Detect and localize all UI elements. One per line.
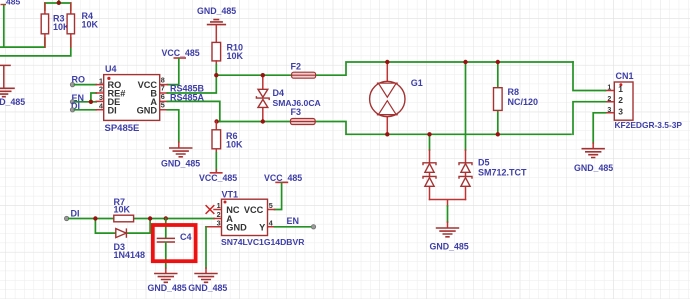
wire A line to F3 riser [216,122,571,135]
svg-text:10K: 10K [226,140,243,150]
wire VCC to U4 pin8 [167,59,178,85]
junction EN [89,100,93,104]
junction R8 top [496,60,500,64]
svg-text:DI: DI [108,105,117,115]
svg-text:EN: EN [287,216,300,226]
fuse F2 [291,62,316,79]
svg-text:1N4148: 1N4148 [114,250,146,260]
svg-text:G1: G1 [411,78,423,88]
svg-text:GND_485: GND_485 [430,241,469,251]
svg-text:VT1: VT1 [222,190,239,200]
wire DI line to VT1 pin A [69,218,214,220]
wire R6 to VCC port [215,153,217,170]
svg-text:D5: D5 [478,157,490,167]
wire R3 R4 tops [45,0,71,10]
junction B node [214,73,218,77]
ground GND_485 left edge [0,65,25,106]
junction D5 right top rail [463,60,467,64]
svg-text:5: 5 [269,201,273,210]
diode D4 SMAJ6.0CA [256,75,320,121]
wire CN1 pin1 riser [573,62,606,91]
svg-text:SM712.TCT: SM712.TCT [478,168,527,178]
net label fragment top-left [1,0,21,7]
junction D3 right [148,216,152,220]
svg-text:VCC: VCC [244,205,264,215]
svg-text:1: 1 [217,201,221,210]
svg-text:4: 4 [269,218,273,227]
wire EN to DE and RE# [75,93,97,102]
op-amp U4 SP485E [96,64,167,134]
wire DI [75,109,97,111]
wire VT1 pin3 to ground [205,227,207,268]
svg-text:2: 2 [607,96,611,103]
svg-text:5: 5 [161,101,165,110]
svg-text:GND_485: GND_485 [161,159,200,169]
junction D5 left top [427,132,431,136]
svg-text:R8: R8 [508,87,520,97]
port RO [70,75,85,87]
junction D3 left [93,216,97,220]
port EN [70,93,84,104]
svg-text:U4: U4 [105,64,117,74]
svg-text:F3: F3 [291,107,302,117]
svg-text:DI: DI [71,209,80,219]
resistor R8 [494,62,539,134]
junction A node [214,119,218,123]
svg-text:GND_485: GND_485 [197,6,236,16]
junction D4 bottom [261,119,265,123]
gas discharge tube G1 [370,62,423,134]
svg-text:C4: C4 [180,232,192,242]
svg-text:10K: 10K [227,51,244,61]
junction top-left [57,1,61,5]
svg-text:VCC_485: VCC_485 [162,48,200,58]
ground GND_485 under U4 [161,148,200,169]
resistor R10 [212,42,244,64]
svg-text:NC/120: NC/120 [508,97,539,107]
junction G1 bottom [385,132,389,136]
svg-text:GND_485: GND_485 [188,283,227,293]
svg-text:GND: GND [137,105,158,115]
power port VCC_485 below R6 [199,169,237,183]
ground GND_485 under CN1 [574,149,613,173]
resistor R4 [67,3,98,47]
selection box around C4 [153,225,196,261]
inverter VT1 SN74LVC1G14DBVR [206,190,306,247]
svg-text:GND: GND [226,223,247,233]
ground GND_485 under D5 [430,228,469,251]
svg-text:1: 1 [618,84,623,94]
svg-text:3: 3 [217,218,221,227]
port DI bottom [64,209,79,221]
svg-text:3: 3 [618,106,623,116]
svg-text:1: 1 [607,85,611,92]
junction D4 top [261,73,265,77]
diode D5 SM712.TCT [423,62,527,206]
svg-text:KF2EDGR-3.5-3P: KF2EDGR-3.5-3P [615,120,683,130]
wire CN1 pin3 to ground [593,113,605,143]
svg-text:GND_485: GND_485 [148,283,187,293]
svg-text:Y: Y [259,223,265,233]
svg-text:485: 485 [6,0,20,7]
power port VCC_485 above VT1 [264,173,302,183]
svg-text:SN74LVC1G14DBVR: SN74LVC1G14DBVR [221,237,305,247]
svg-text:2: 2 [618,95,623,105]
svg-text:CN1: CN1 [616,71,634,81]
wire A net U4 pin6 [167,101,219,121]
wire R3 bottom to left port [0,6,45,48]
capacitor C4 [157,219,192,274]
fuse F3 [291,107,316,125]
wire D5 common to ground [447,206,449,222]
wire U4 pin5 GND to ground [167,110,178,142]
svg-text:GND_485: GND_485 [574,163,613,173]
resistor R3 [41,3,70,47]
ground GND_485 under C4 [148,274,187,293]
ground GND_485 under VT1 [188,274,227,293]
diode D3 1N4148 [95,219,150,261]
ground GND_485 top (above R10) [197,6,236,43]
wire R4 bottom to left edge [0,38,71,56]
junction G1 top [385,60,389,64]
wire B line to F2 riser [216,62,573,75]
resistor R6 [212,122,243,153]
wire B net U4 pin7 [167,75,216,93]
port DI [70,101,80,112]
wire VCC to VT1 pin5 [275,183,282,209]
wire VT1 pin4 Y to EN port [275,226,314,228]
svg-text:SP485E: SP485E [105,123,140,134]
svg-text:3: 3 [607,107,611,114]
svg-text:D4: D4 [273,88,285,98]
wire R10 to B node [215,65,217,76]
port EN end [311,225,315,229]
svg-text:F2: F2 [291,62,302,72]
wire RO [75,84,97,86]
svg-text:4: 4 [99,102,103,111]
connector CN1 KF2EDGR-3.5-3P [606,71,683,130]
power port VCC_485 above U4 [162,48,200,58]
wire CN1 pin2 riser [573,102,606,135]
svg-text:GND_485: GND_485 [0,97,25,107]
junction R8 bottom [496,132,500,136]
svg-text:10K: 10K [82,19,99,29]
resistor R7 [114,197,134,222]
junction C4 tap [164,216,168,220]
svg-text:VCC_485: VCC_485 [199,173,237,183]
svg-text:10K: 10K [114,205,131,215]
